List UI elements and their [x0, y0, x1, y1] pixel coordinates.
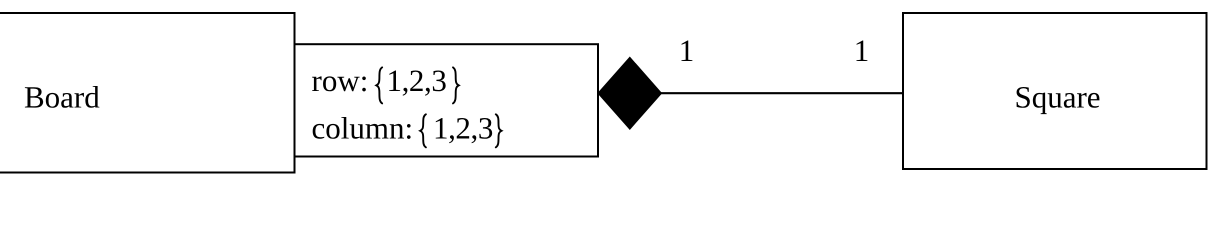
svg-text:1,2,3: 1,2,3: [386, 63, 446, 98]
open brace of row set: [376, 67, 382, 103]
svg-text:1: 1: [679, 33, 695, 68]
svg-text:Board: Board: [24, 80, 100, 115]
close brace of row set: [453, 67, 459, 103]
close brace of column set: [496, 114, 502, 147]
class box Board: [0, 13, 295, 173]
svg-text:column:: column:: [312, 111, 414, 146]
class box Square: [903, 13, 1207, 169]
open brace of column set: [420, 114, 426, 147]
composition diamond: [598, 57, 662, 129]
svg-text:Square: Square: [1014, 80, 1100, 115]
wire association line: [661, 92, 904, 94]
svg-text:1: 1: [854, 33, 870, 68]
svg-text:row:: row:: [312, 63, 369, 98]
attribute box of Board: [295, 44, 599, 156]
svg-text:1,2,3: 1,2,3: [433, 111, 493, 146]
